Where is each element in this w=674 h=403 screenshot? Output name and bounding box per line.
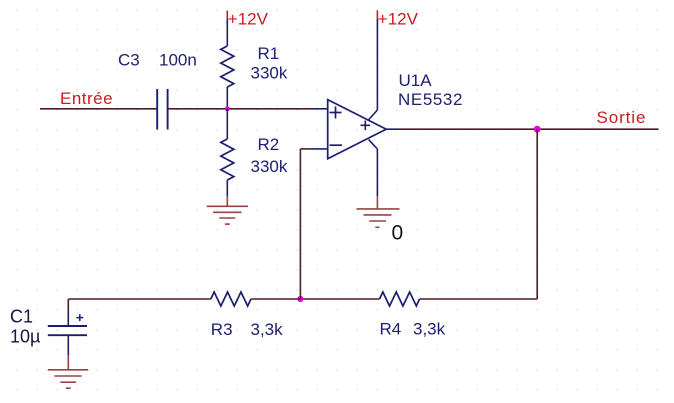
label U1A NE5532 <box>398 71 463 109</box>
wire output to Sortie <box>399 128 659 130</box>
svg-text:3,3k: 3,3k <box>251 320 284 339</box>
resistor R2 <box>221 109 234 196</box>
svg-text:R2: R2 <box>258 135 280 154</box>
wire R3 to junction <box>251 298 300 300</box>
ground below C1 <box>48 355 89 388</box>
svg-text:330k: 330k <box>251 64 288 83</box>
wire junction to R4 <box>300 298 379 300</box>
pin op-amp V+ <box>368 19 377 120</box>
label R2 330k <box>251 135 288 176</box>
svg-text:3,3k: 3,3k <box>413 320 446 339</box>
svg-text:+12V: +12V <box>228 10 269 29</box>
svg-text:C3: C3 <box>118 50 140 69</box>
svg-text:+12V: +12V <box>378 10 419 29</box>
capacitor C3 <box>157 89 167 130</box>
op-amp U1A <box>313 100 386 159</box>
svg-text:10µ: 10µ <box>10 327 40 347</box>
node junction C3/R1/R2 <box>225 106 230 111</box>
label R4 3,3k <box>380 320 446 339</box>
svg-text:C1: C1 <box>10 307 33 327</box>
resistor R4 <box>380 292 420 306</box>
wire +12V to R1 <box>226 19 228 46</box>
capacitor C1 <box>48 312 87 355</box>
svg-text:Entrée: Entrée <box>60 89 113 108</box>
power +12V (left) <box>227 10 268 29</box>
wire input Entree to C3 <box>40 108 157 110</box>
wire feedback to op-amp inverting input <box>300 149 313 299</box>
svg-text:NE5532: NE5532 <box>398 90 463 109</box>
resistor R3 <box>211 292 251 306</box>
label R3 3,3k <box>211 320 283 339</box>
node junction output/feedback <box>534 126 541 133</box>
svg-text:Sortie: Sortie <box>597 108 647 127</box>
svg-text:U1A: U1A <box>399 71 433 90</box>
svg-text:R4: R4 <box>380 320 402 339</box>
wire feedback vertical from output <box>536 129 538 299</box>
resistor R1 <box>221 46 234 109</box>
svg-text:R1: R1 <box>258 44 280 63</box>
pin op-amp V- <box>369 140 378 196</box>
svg-text:0: 0 <box>392 221 404 244</box>
ground below R2 <box>207 196 248 224</box>
label R1 330k <box>251 44 288 83</box>
svg-text:R3: R3 <box>211 320 233 339</box>
svg-text:100n: 100n <box>159 50 197 69</box>
svg-text:330k: 330k <box>251 157 288 176</box>
wire C3 to op-amp + input <box>168 108 313 110</box>
wire R4 to feedback corner <box>420 298 538 300</box>
label C1 10u <box>10 307 40 347</box>
power +12V (right, op-amp V+) <box>377 10 418 29</box>
ground below op-amp (net 0) <box>357 196 400 227</box>
wire C1 top pin <box>67 299 69 312</box>
wire C1 to R3 <box>68 298 211 300</box>
node junction feedback/R3/R4 <box>297 296 303 302</box>
label C3 100n <box>118 50 197 69</box>
pin op-amp output <box>386 128 399 130</box>
